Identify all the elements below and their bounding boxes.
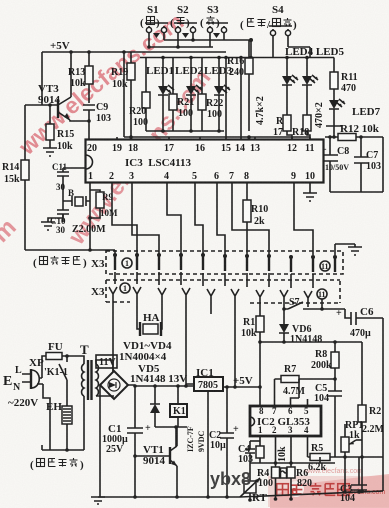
LED LED1 bbox=[146, 58, 174, 132]
resistor R16 240 bbox=[227, 40, 253, 131]
node rail crossing bbox=[161, 56, 165, 60]
transistor VT3 bbox=[38, 52, 71, 120]
resistor R12 10k bbox=[325, 123, 383, 141]
wire stubs to IC top pins bbox=[117, 137, 310, 140]
node LED7 bottom tee bbox=[326, 126, 342, 137]
node pin1 mark bottom bbox=[120, 283, 130, 293]
wire R19 top feed bbox=[130, 52, 132, 63]
node pin11 mark bottom bbox=[317, 289, 327, 299]
node mains input E L N bbox=[3, 365, 22, 393]
wire switch bus B bbox=[149, 33, 213, 47]
op-amp IC3 LSC4113 bbox=[86, 140, 324, 183]
resistor R11 470 bbox=[330, 58, 358, 101]
ground above X3 right bbox=[335, 244, 362, 255]
buzzer HA bbox=[137, 303, 162, 336]
wire IC2 pin8 supply bbox=[259, 387, 261, 406]
resistor R14 15k bbox=[2, 105, 29, 250]
wire right border bbox=[382, 318, 384, 457]
ground IC3 pin10 bbox=[303, 183, 317, 201]
resistor small mid bbox=[281, 468, 288, 478]
wire +5V rail base bbox=[223, 386, 260, 388]
crystal B Z2.00M bbox=[63, 188, 106, 235]
resistor R13 10k bbox=[68, 52, 93, 103]
capacitor C7 103 bbox=[354, 137, 381, 192]
wire X3-6 to +5V bbox=[234, 305, 236, 387]
resistor R3 on pin1 bbox=[256, 436, 264, 463]
ground below C10 bbox=[41, 214, 63, 230]
wire pin15 long column bbox=[225, 58, 227, 141]
wire VT3 base feed bbox=[25, 104, 58, 106]
wire comparator node bus bbox=[260, 341, 362, 343]
ground main bus bbox=[98, 491, 383, 497]
LED LED2 bbox=[175, 58, 204, 132]
switch S3 (tang) bbox=[200, 4, 228, 38]
node C9 junction bbox=[87, 119, 91, 123]
wire IC3 pin7 to X3 bbox=[232, 183, 269, 255]
wire LED cathode bus bbox=[146, 130, 224, 132]
capacitor C1 1000u 25V bbox=[102, 386, 151, 497]
switch S1 (fan) bbox=[140, 4, 168, 38]
node S4 junction bbox=[249, 38, 253, 42]
wire X3-5 stub bbox=[210, 305, 212, 314]
wire IC2 lower node row bbox=[250, 462, 335, 464]
wire IC2 pin6 bbox=[291, 379, 300, 406]
node rail junction R13 bbox=[87, 50, 91, 54]
wire IC3 pin1 down bbox=[89, 183, 91, 250]
wire IC3 pin9 to X3 bbox=[294, 183, 313, 255]
wire X3-1 to bridge bbox=[112, 303, 114, 372]
wire VD5 K1 join to VT1 bbox=[155, 427, 187, 447]
wire LED anode rail bbox=[140, 57, 334, 59]
wire left column from rail to VT3 base bbox=[41, 52, 43, 105]
resistor R10 2k bbox=[243, 183, 268, 255]
plug XP bbox=[22, 357, 44, 389]
diode VD6 1N4148 bbox=[279, 309, 322, 345]
wire +5V rail bbox=[42, 51, 226, 53]
wire +5V drop column bbox=[123, 52, 125, 137]
wire switch bus A bbox=[164, 33, 251, 40]
wire pre-IC bus bbox=[124, 136, 310, 138]
wire right box return bbox=[330, 137, 383, 192]
wire IC2 pin5 bbox=[307, 399, 309, 406]
regulator IC1 7805 bbox=[194, 367, 223, 497]
bridge rectifier VD1-VD4 bbox=[100, 340, 172, 399]
wire IC3 pin6 to X3 bbox=[217, 183, 225, 255]
wire comparator output row bbox=[308, 436, 384, 457]
wire X3-11 stub down bbox=[321, 299, 323, 309]
wire S4 drop to LED rail bbox=[251, 36, 310, 58]
wire mains bottom bus bbox=[42, 445, 84, 450]
wire IC3 pin3 to X3 bbox=[132, 183, 159, 255]
capacitor C9 103 bbox=[83, 102, 111, 124]
watermark diagonal elecfans upper bbox=[28, 2, 218, 156]
resistor R4 100 bbox=[257, 436, 280, 499]
ground below R15 bbox=[43, 148, 57, 156]
wire IC3 pin5 to X3 bbox=[195, 183, 203, 255]
heater EH bbox=[46, 401, 72, 450]
resistor R21 100 bbox=[169, 58, 194, 132]
label 11V bbox=[96, 355, 117, 368]
wire lid bottom left to X3 pin1 bbox=[25, 250, 115, 255]
resistor R6 820 bbox=[287, 436, 312, 499]
label (guo gai dian lu) lid circuit bbox=[33, 256, 87, 269]
resistor R18 bbox=[292, 115, 311, 140]
node pin1 mark bbox=[122, 258, 132, 268]
wire RP1 and R2 to ground bus bbox=[320, 457, 362, 492]
wire pin14 long column bbox=[240, 58, 242, 141]
wire right border bottom bbox=[382, 457, 384, 491]
fuse FU bbox=[42, 341, 67, 378]
transistor VT1 9014 bbox=[135, 427, 177, 497]
relay coil K1 bbox=[170, 386, 187, 427]
watermark bottom band bbox=[268, 468, 389, 508]
wire IC2 pin7 to R7 bbox=[274, 379, 276, 406]
wire crystal top link bbox=[63, 167, 90, 169]
resistor R20 100 bbox=[129, 58, 150, 132]
LED LED3 bbox=[204, 58, 233, 132]
capacitor C8 10u/50V electrolytic bbox=[321, 137, 349, 192]
capacitor C4 103 bbox=[238, 441, 260, 465]
node pin11 mark bbox=[320, 261, 330, 271]
capacitor C11 30 bbox=[52, 162, 69, 201]
label (guo di dian lu) base circuit bbox=[30, 458, 84, 471]
node junction base/R15 bbox=[48, 103, 52, 107]
wire X3 interconnect stubs bbox=[115, 272, 313, 288]
node bus junctions bbox=[176, 45, 180, 49]
switch S4 (baowen/qingchu) bbox=[240, 4, 297, 36]
resistor R7 4.7M bbox=[275, 364, 336, 397]
wire bridge minus to ground bbox=[99, 385, 101, 497]
LED LED4 bbox=[282, 58, 298, 116]
wire neutral column bbox=[43, 384, 50, 450]
node crystal column joins bbox=[88, 248, 92, 252]
switch S7 bbox=[282, 297, 345, 311]
thermistor RT bbox=[240, 463, 268, 504]
resistor R19 10k bbox=[111, 63, 135, 139]
relay contact K1-1 bbox=[44, 354, 69, 406]
capacitor C5 104 bbox=[314, 383, 342, 457]
connector X3 bottom row bbox=[91, 280, 340, 307]
node rail junction VT3 collector bbox=[69, 50, 73, 54]
resistor R15 10k bbox=[46, 105, 74, 152]
connector X3 top row bbox=[91, 251, 343, 274]
resistor R17 bbox=[273, 115, 292, 140]
resistor R22 100 bbox=[198, 58, 223, 132]
wire VT3 emitter to C9 bbox=[70, 120, 89, 121]
resistor R5 6.2k bbox=[308, 443, 330, 473]
op-amp IC2 GL353 bbox=[250, 406, 321, 436]
LED LED5 bbox=[302, 58, 318, 116]
resistor R2 2.2M bbox=[358, 342, 385, 457]
capacitor C2 10u bbox=[209, 385, 239, 497]
wire IC3 pin2 to X3 bbox=[112, 183, 137, 255]
wire IC3 pin4 to X3 bbox=[167, 183, 181, 255]
node R9 bottom junction bbox=[88, 216, 92, 220]
LED LED7 bbox=[329, 99, 381, 126]
capacitor C10 30 bbox=[50, 201, 69, 235]
resistor R1 10k bbox=[241, 306, 264, 387]
wire C9 to IC3 pin20 bbox=[88, 121, 90, 139]
wire X3-4 stub bbox=[186, 304, 194, 384]
transformer T bbox=[67, 342, 114, 450]
capacitor C6 470u bbox=[336, 306, 383, 339]
diode VD5 bbox=[150, 386, 160, 427]
switch S2 (zhou) bbox=[170, 4, 197, 38]
resistor R9 10M bbox=[90, 190, 118, 218]
wire bridge plus to 13V rail bbox=[128, 385, 194, 386]
potentiometer RP1 1k bbox=[341, 420, 363, 457]
resistor R8 200k bbox=[311, 342, 339, 391]
capacitor C3 104 bbox=[340, 457, 367, 504]
